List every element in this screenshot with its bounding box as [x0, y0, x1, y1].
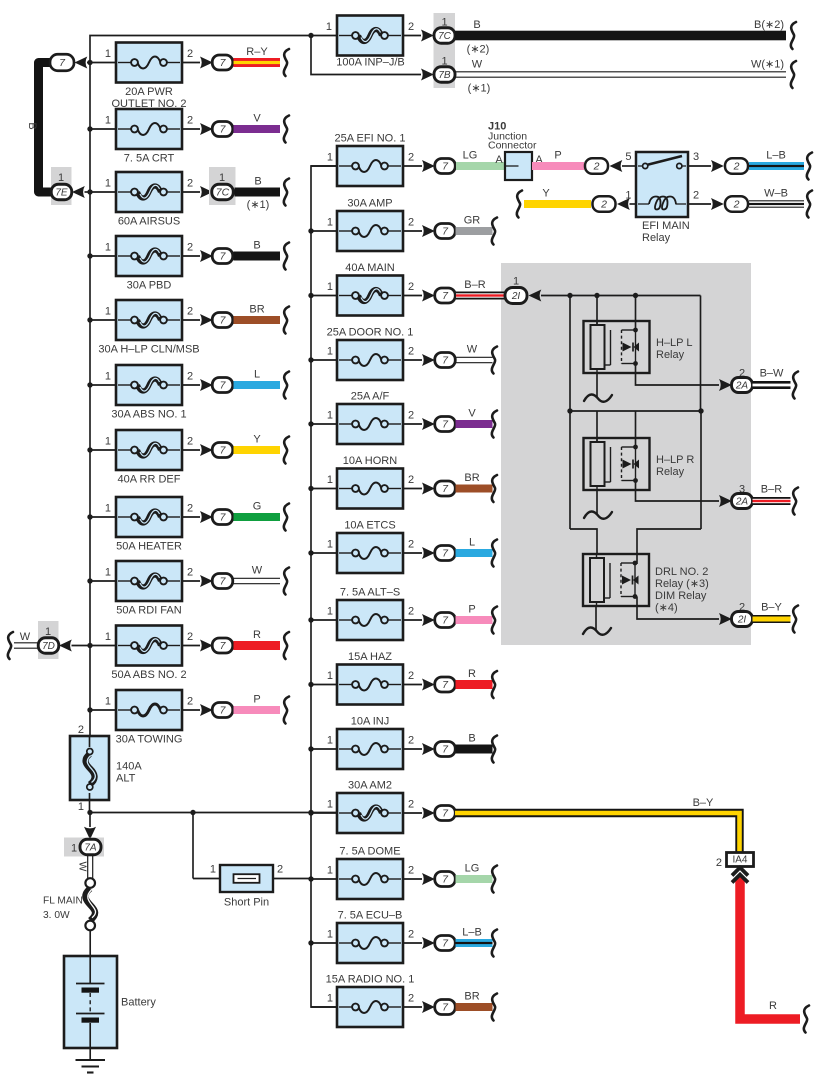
svg-text:IA4: IA4 — [732, 855, 747, 866]
svg-text:10A ETCS: 10A ETCS — [344, 520, 395, 532]
svg-text:P: P — [554, 150, 561, 162]
svg-text:1: 1 — [105, 567, 111, 579]
svg-text:B–Y: B–Y — [693, 797, 714, 809]
svg-text:3. 0W: 3. 0W — [43, 910, 70, 921]
svg-text:15A RADIO NO. 1: 15A RADIO NO. 1 — [326, 974, 415, 986]
svg-text:Relay: Relay — [656, 349, 685, 361]
svg-text:(∗1): (∗1) — [247, 199, 270, 211]
svg-text:2A: 2A — [735, 381, 749, 392]
svg-text:30A H–LP CLN/MSB: 30A H–LP CLN/MSB — [98, 344, 199, 356]
svg-text:2: 2 — [733, 161, 740, 173]
svg-text:2: 2 — [408, 474, 414, 486]
svg-text:1: 1 — [105, 436, 111, 448]
svg-text:1: 1 — [327, 865, 333, 877]
svg-text:L–B: L–B — [462, 927, 482, 939]
svg-text:B: B — [473, 19, 480, 31]
svg-text:7. 5A DOME: 7. 5A DOME — [339, 846, 400, 858]
svg-text:7. 5A ECU–B: 7. 5A ECU–B — [338, 910, 403, 922]
svg-text:DRL NO. 2: DRL NO. 2 — [655, 566, 708, 578]
svg-text:BR: BR — [249, 304, 264, 316]
svg-text:60A AIRSUS: 60A AIRSUS — [118, 216, 180, 228]
svg-text:LG: LG — [465, 863, 480, 875]
svg-text:W: W — [472, 59, 483, 71]
svg-text:1: 1 — [105, 48, 111, 60]
svg-text:Y: Y — [253, 434, 261, 446]
svg-text:1: 1 — [105, 115, 111, 127]
svg-text:DIM Relay: DIM Relay — [655, 590, 707, 602]
svg-text:40A MAIN: 40A MAIN — [345, 262, 395, 274]
svg-text:V: V — [468, 408, 476, 420]
svg-text:2: 2 — [187, 631, 193, 643]
svg-text:1: 1 — [105, 242, 111, 254]
svg-text:B: B — [26, 122, 38, 129]
svg-text:W: W — [252, 565, 263, 577]
svg-text:40A RR DEF: 40A RR DEF — [118, 474, 181, 486]
svg-text:B–R: B–R — [464, 279, 485, 291]
svg-text:B–R: B–R — [761, 484, 782, 496]
svg-text:2: 2 — [408, 539, 414, 551]
svg-text:B: B — [468, 733, 475, 745]
svg-text:25A A/F: 25A A/F — [351, 391, 390, 403]
svg-text:1: 1 — [327, 152, 333, 164]
svg-text:W: W — [77, 862, 89, 872]
svg-text:1: 1 — [327, 670, 333, 682]
svg-text:2: 2 — [408, 993, 414, 1005]
svg-text:A: A — [495, 154, 503, 166]
svg-text:1: 1 — [327, 799, 333, 811]
svg-text:B: B — [254, 176, 261, 188]
svg-text:1: 1 — [105, 696, 111, 708]
svg-text:2I: 2I — [737, 615, 747, 626]
svg-text:7. 5A ALT–S: 7. 5A ALT–S — [340, 587, 400, 599]
svg-text:2: 2 — [408, 799, 414, 811]
svg-text:2: 2 — [693, 190, 699, 202]
svg-text:1: 1 — [78, 801, 84, 813]
svg-text:(∗4): (∗4) — [655, 602, 678, 614]
svg-text:2: 2 — [408, 410, 414, 422]
svg-text:1: 1 — [327, 281, 333, 293]
svg-text:2: 2 — [408, 735, 414, 747]
svg-text:H–LP R: H–LP R — [656, 454, 694, 466]
svg-text:1: 1 — [327, 539, 333, 551]
svg-text:B: B — [253, 240, 260, 252]
svg-text:L: L — [254, 369, 260, 381]
svg-text:1: 1 — [58, 172, 64, 184]
svg-text:2: 2 — [593, 161, 600, 173]
svg-text:1: 1 — [105, 371, 111, 383]
svg-text:50A HEATER: 50A HEATER — [116, 541, 182, 553]
svg-text:2: 2 — [408, 21, 414, 33]
svg-text:30A ABS NO. 1: 30A ABS NO. 1 — [111, 409, 186, 421]
svg-text:2: 2 — [408, 217, 414, 229]
svg-text:2: 2 — [716, 857, 722, 869]
svg-text:Relay (∗3): Relay (∗3) — [655, 578, 709, 590]
svg-text:7. 5A CRT: 7. 5A CRT — [124, 153, 175, 165]
svg-text:30A AM2: 30A AM2 — [348, 780, 392, 792]
svg-text:140A: 140A — [116, 761, 142, 773]
svg-text:1: 1 — [105, 503, 111, 515]
svg-text:10A HORN: 10A HORN — [343, 455, 397, 467]
svg-text:R: R — [468, 668, 476, 680]
svg-text:2: 2 — [78, 724, 84, 736]
svg-text:2: 2 — [187, 503, 193, 515]
svg-text:2A: 2A — [735, 497, 749, 508]
svg-text:1: 1 — [105, 631, 111, 643]
svg-text:P: P — [468, 604, 475, 616]
svg-text:7B: 7B — [438, 70, 451, 81]
svg-text:Y: Y — [542, 188, 550, 200]
svg-text:7E: 7E — [55, 188, 68, 199]
svg-text:1: 1 — [326, 21, 332, 33]
svg-text:Connector: Connector — [488, 140, 537, 152]
svg-text:7D: 7D — [42, 641, 55, 652]
svg-text:7C: 7C — [438, 31, 452, 42]
svg-text:2: 2 — [187, 242, 193, 254]
svg-text:B(∗2): B(∗2) — [754, 19, 784, 31]
svg-text:R–Y: R–Y — [246, 46, 268, 58]
svg-text:G: G — [253, 501, 262, 513]
svg-text:2: 2 — [187, 567, 193, 579]
svg-text:(∗1): (∗1) — [468, 83, 491, 95]
svg-text:3: 3 — [693, 151, 699, 163]
svg-text:1: 1 — [327, 929, 333, 941]
svg-text:2: 2 — [187, 371, 193, 383]
svg-text:30A TOWING: 30A TOWING — [116, 734, 183, 746]
svg-text:2: 2 — [187, 178, 193, 190]
svg-text:1: 1 — [210, 864, 216, 876]
svg-text:L: L — [469, 537, 475, 549]
svg-text:7C: 7C — [216, 187, 230, 199]
svg-text:50A RDI FAN: 50A RDI FAN — [116, 605, 181, 617]
svg-text:1: 1 — [45, 626, 51, 638]
svg-text:2: 2 — [733, 199, 740, 211]
svg-text:30A AMP: 30A AMP — [347, 198, 392, 210]
svg-text:1: 1 — [327, 410, 333, 422]
svg-text:1: 1 — [71, 843, 77, 855]
svg-text:BR: BR — [464, 472, 479, 484]
svg-text:5: 5 — [625, 151, 631, 163]
svg-text:2: 2 — [187, 306, 193, 318]
svg-text:7A: 7A — [84, 843, 97, 854]
svg-text:2: 2 — [408, 865, 414, 877]
svg-text:2: 2 — [187, 436, 193, 448]
svg-text:V: V — [253, 113, 261, 125]
svg-text:1: 1 — [105, 178, 111, 190]
svg-text:50A ABS NO. 2: 50A ABS NO. 2 — [111, 669, 186, 681]
svg-text:100A INP–J/B: 100A INP–J/B — [336, 57, 405, 69]
svg-text:BR: BR — [464, 991, 479, 1003]
svg-text:Battery: Battery — [121, 997, 156, 1009]
svg-text:W–B: W–B — [764, 188, 788, 200]
svg-text:15A HAZ: 15A HAZ — [348, 651, 392, 663]
svg-text:2: 2 — [600, 199, 607, 211]
svg-text:Short Pin: Short Pin — [224, 897, 269, 909]
svg-text:EFI MAIN: EFI MAIN — [642, 220, 690, 232]
svg-text:B–Y: B–Y — [761, 602, 782, 614]
svg-text:1: 1 — [219, 172, 225, 184]
svg-text:1: 1 — [327, 474, 333, 486]
svg-text:GR: GR — [464, 215, 481, 227]
svg-text:1: 1 — [327, 993, 333, 1005]
svg-text:1: 1 — [327, 217, 333, 229]
svg-text:20A PWR: 20A PWR — [125, 86, 173, 98]
svg-text:2I: 2I — [511, 291, 521, 302]
svg-text:LG: LG — [463, 150, 478, 162]
svg-text:1: 1 — [327, 735, 333, 747]
svg-text:2: 2 — [187, 48, 193, 60]
svg-text:25A EFI NO. 1: 25A EFI NO. 1 — [335, 133, 406, 145]
svg-text:Relay: Relay — [642, 232, 671, 244]
svg-text:1: 1 — [327, 606, 333, 618]
svg-text:H–LP L: H–LP L — [656, 337, 693, 349]
svg-text:W: W — [467, 344, 478, 356]
svg-text:2: 2 — [187, 696, 193, 708]
svg-text:R: R — [253, 629, 261, 641]
svg-text:R: R — [769, 1000, 777, 1012]
svg-text:L–B: L–B — [766, 150, 786, 162]
svg-text:W: W — [20, 631, 31, 643]
svg-text:2: 2 — [408, 929, 414, 941]
svg-text:2: 2 — [408, 281, 414, 293]
svg-text:1: 1 — [105, 306, 111, 318]
svg-text:2: 2 — [187, 115, 193, 127]
svg-text:B–W: B–W — [760, 368, 784, 380]
svg-text:2: 2 — [277, 864, 283, 876]
svg-text:W(∗1): W(∗1) — [751, 59, 784, 71]
svg-text:2: 2 — [408, 152, 414, 164]
svg-text:Relay: Relay — [656, 466, 685, 478]
svg-text:FL MAIN: FL MAIN — [43, 896, 83, 907]
svg-text:25A DOOR NO. 1: 25A DOOR NO. 1 — [327, 327, 414, 339]
svg-text:ALT: ALT — [116, 773, 136, 785]
svg-text:1: 1 — [513, 276, 519, 288]
svg-text:(∗2): (∗2) — [467, 44, 490, 56]
svg-text:1: 1 — [327, 346, 333, 358]
svg-text:2: 2 — [408, 606, 414, 618]
svg-text:2: 2 — [408, 346, 414, 358]
svg-text:10A INJ: 10A INJ — [351, 716, 390, 728]
svg-text:P: P — [253, 694, 260, 706]
svg-text:30A PBD: 30A PBD — [127, 280, 172, 292]
svg-text:2: 2 — [408, 670, 414, 682]
